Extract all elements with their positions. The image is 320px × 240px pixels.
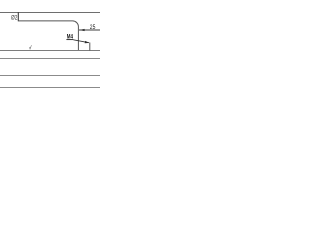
svg-text:25: 25 xyxy=(90,24,96,31)
svg-text:Ø2: Ø2 xyxy=(11,15,18,22)
